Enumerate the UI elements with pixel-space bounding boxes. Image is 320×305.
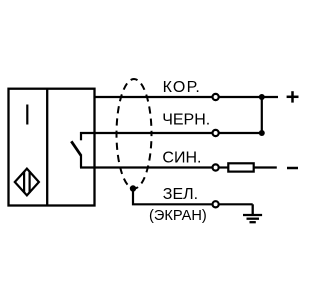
connector pin circle 2 [213, 130, 219, 136]
wire brown top: box to pin [95, 96, 212, 98]
wire blue: resistor to minus [254, 166, 277, 168]
minus terminal [287, 167, 298, 170]
switch contact S1 blade [71, 141, 81, 155]
wire blue: pin to resistor [219, 166, 228, 168]
junction dot A [259, 94, 265, 100]
svg-text:ЗЕЛ.: ЗЕЛ. [163, 186, 198, 203]
connector pin circle 1 [213, 94, 219, 100]
resistor R load [228, 163, 253, 171]
wire link between junctions [261, 97, 263, 133]
inductive sensor symbol (diamond) [15, 169, 39, 196]
svg-text:СИН.: СИН. [162, 150, 201, 167]
junction dot B [259, 130, 265, 136]
sensor body U1 [9, 89, 95, 206]
sensor body divider [46, 89, 48, 206]
svg-text:КОР.: КОР. [163, 79, 201, 96]
wire green shield: drop from ellipse dot [133, 189, 212, 205]
wire green shield: pin to ground [219, 203, 252, 205]
plus terminal [287, 91, 299, 102]
wire black: pin to junction [219, 132, 261, 134]
svg-text:(ЭКРАН): (ЭКРАН) [149, 208, 207, 224]
indicator mark I [26, 105, 28, 125]
cable screen ellipse (dashed) [117, 79, 152, 189]
switch contact S1 fixed stub [80, 132, 82, 140]
ground symbol (shield earth) [243, 204, 262, 222]
connector pin circle 4 [213, 201, 219, 207]
shield junction dot [130, 185, 136, 191]
switch contact S1 bottom terminal [80, 155, 82, 168]
wire blue: switch to pin [80, 166, 212, 168]
wire black: switch to pin [80, 132, 212, 134]
connector pin circle 3 [213, 164, 219, 170]
svg-text:ЧЕРН.: ЧЕРН. [162, 112, 210, 129]
wire brown: pin to junction and plus [219, 96, 278, 98]
